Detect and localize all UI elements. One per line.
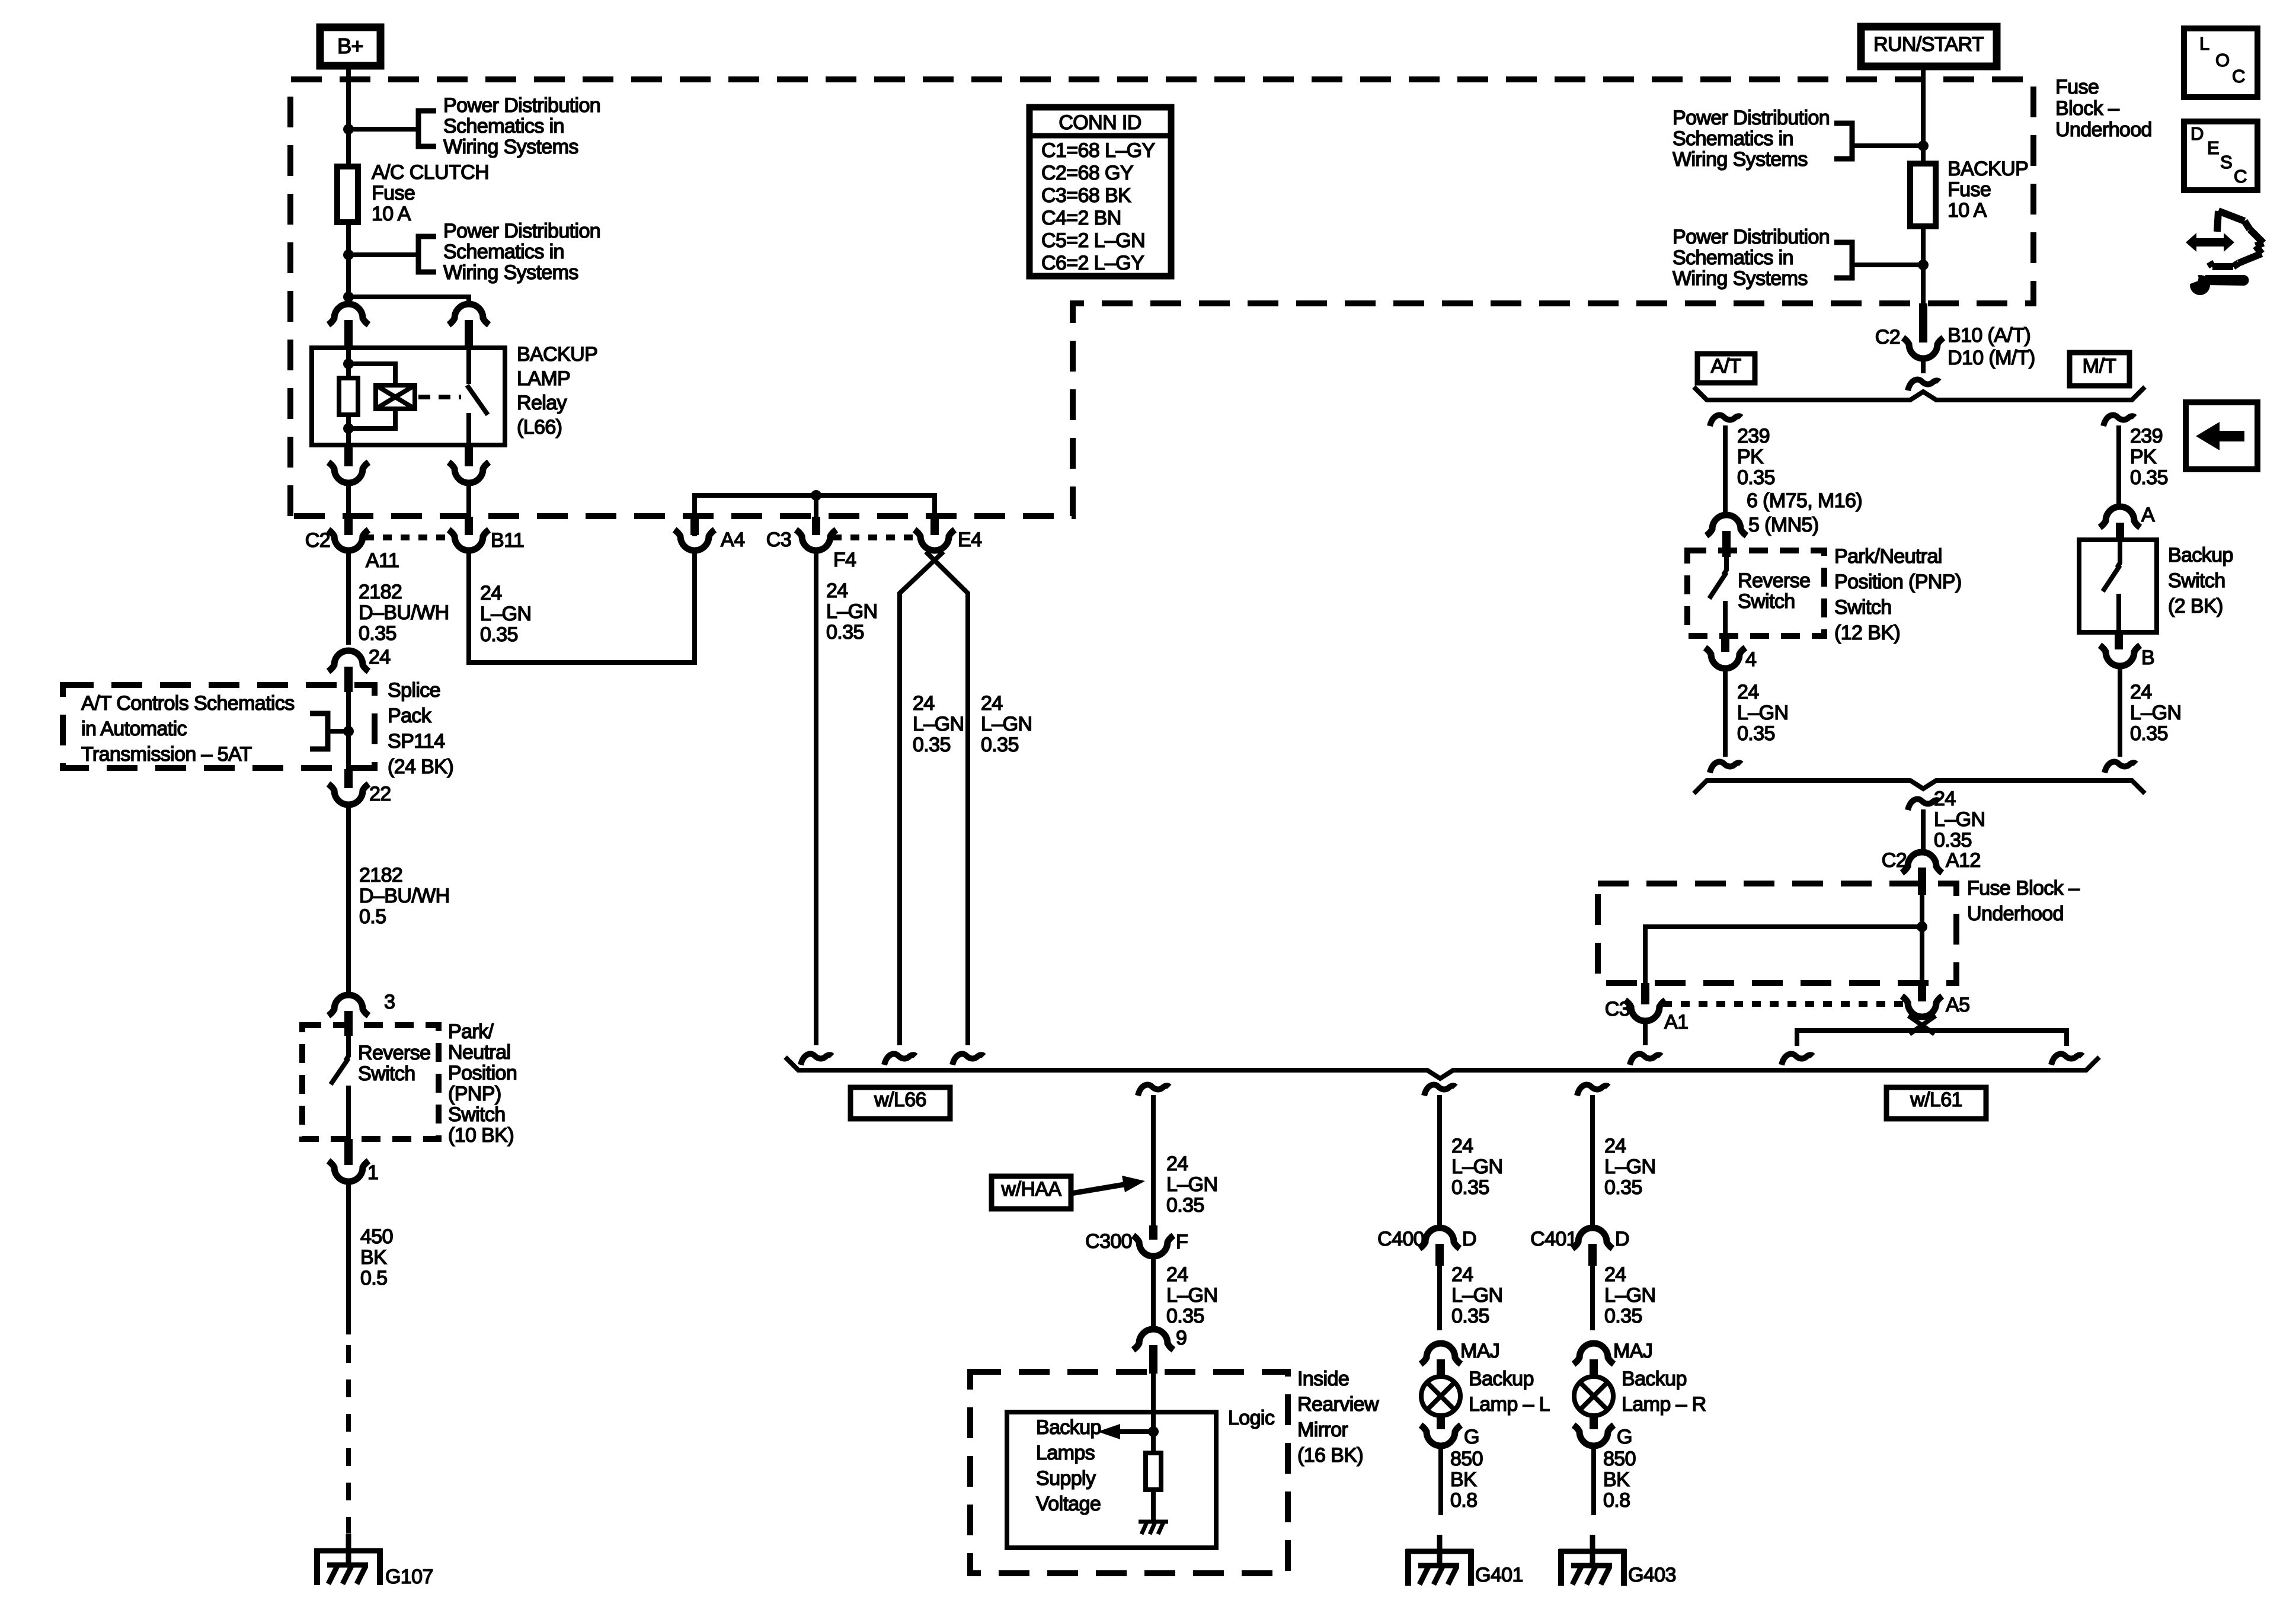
logic ground symbol — [1139, 1520, 1168, 1524]
junction node relay feed — [343, 292, 354, 302]
reverse switch wire top — [346, 1036, 348, 1061]
svg-text:RUN/START: RUN/START — [1873, 33, 1984, 56]
break symbol A5 right — [2051, 1054, 2083, 1065]
connector cup relay pin 30 — [449, 304, 489, 325]
lamp backup lamp R — [1574, 1377, 1613, 1416]
break symbol MT top — [2103, 415, 2135, 426]
pin stub B11 — [465, 517, 473, 535]
wire fuse2 down — [1921, 226, 1926, 303]
wire 450 BK dashed segment — [346, 1345, 351, 1534]
svg-text:MAJ: MAJ — [1460, 1340, 1499, 1362]
svg-text:5 (MN5): 5 (MN5) — [1748, 514, 1819, 536]
fuse block underhood lower dashed box — [1598, 884, 1956, 983]
svg-text:C401: C401 — [1530, 1228, 1577, 1250]
relay node coil bottom — [343, 423, 354, 434]
svg-text:C3: C3 — [1605, 998, 1630, 1020]
A/T tag box — [1697, 354, 1755, 383]
wire into logic — [1151, 1374, 1156, 1453]
break symbol E4 wire b — [952, 1054, 984, 1065]
wire node to relay switch pin — [348, 297, 469, 304]
MT switch contact — [2116, 594, 2121, 632]
relay switch blade — [467, 385, 488, 415]
pin stub MAJ R — [1590, 1359, 1598, 1378]
relay switch fixed bottom — [466, 413, 471, 445]
wire fuse block internal — [1645, 927, 1922, 983]
M/T tag box — [2070, 353, 2129, 386]
splice node SP114 — [343, 726, 354, 737]
connector face dotted lower — [1663, 1001, 1904, 1007]
connector cup A5 — [1902, 996, 1942, 1017]
junction node B+/callout1 — [343, 124, 354, 135]
junction node F4 pin — [811, 490, 821, 501]
connector cup A4 — [674, 530, 715, 550]
wire 2182 D-BU/WH 0.5 — [346, 805, 351, 995]
pin stub A5 — [1918, 983, 1926, 1001]
reverse switch blade — [331, 1058, 348, 1084]
break symbol C3A1 — [1630, 1054, 1661, 1065]
CONN ID header line — [1029, 133, 1171, 139]
connector cup C3 F4 — [796, 530, 836, 550]
AT switch contact — [1723, 601, 1728, 636]
connector cup C2 B10 — [1903, 338, 1943, 359]
svg-text:w/HAA: w/HAA — [1001, 1178, 1062, 1201]
wire 850 BK L — [1438, 1446, 1443, 1515]
junction node logic — [1148, 1426, 1159, 1437]
wire 450 BK 0.5 — [346, 1182, 351, 1334]
w/L66 tag box — [850, 1087, 950, 1119]
connector face dotted C2 — [365, 534, 452, 540]
wire node to relay coil pin — [346, 297, 351, 304]
relay resistor — [339, 378, 358, 415]
connector cup C400 D — [1419, 1228, 1460, 1249]
callout bracket RS 1 — [1834, 123, 1852, 159]
pin stub relay 86 — [344, 320, 353, 350]
connector cup relay 85 — [328, 462, 369, 483]
wire A12 inside fuse block — [1920, 895, 1924, 983]
break symbol C400 top — [1424, 1084, 1456, 1096]
logic arrow backup lamps supply voltage — [1119, 1429, 1153, 1434]
svg-text:A11: A11 — [366, 549, 399, 572]
wire 24 L-GN c400a — [1437, 1095, 1442, 1228]
wire 24 L-GN c400b — [1437, 1266, 1442, 1330]
wire F4 pin drop — [814, 495, 818, 517]
pin stub 4 — [1721, 636, 1729, 652]
break symbol F4 wire — [801, 1054, 832, 1065]
pin stub F4 — [812, 517, 820, 535]
svg-text:C300: C300 — [1085, 1230, 1132, 1253]
A/T controls dashed box — [63, 685, 375, 768]
pin stub 5 — [1722, 531, 1731, 557]
break symbol E4 wire a — [884, 1054, 916, 1065]
svg-text:F4: F4 — [833, 549, 856, 571]
wire E4 X right — [926, 552, 968, 1045]
svg-text:w/L66: w/L66 — [874, 1089, 926, 1111]
svg-text:Logic: Logic — [1228, 1407, 1275, 1429]
svg-text:D: D — [1615, 1228, 1629, 1250]
connector cup MAJ L — [1421, 1343, 1461, 1364]
relay coil X — [376, 385, 415, 409]
svg-text:G403: G403 — [1628, 1564, 1676, 1586]
svg-text:6 (M75, M16): 6 (M75, M16) — [1747, 489, 1862, 512]
pin stub relay 87 — [465, 445, 473, 466]
svg-text:9: 9 — [1176, 1327, 1187, 1349]
backup switch box — [2079, 540, 2157, 632]
relay coil pin wire — [346, 348, 351, 378]
wire to callout 1 — [348, 127, 417, 132]
wire B10 down — [1921, 359, 1926, 373]
connector cup G L — [1421, 1425, 1461, 1446]
svg-text:C2: C2 — [1882, 849, 1907, 872]
connector cup 24 — [328, 651, 369, 671]
connector cup E4 — [914, 530, 955, 550]
svg-text:22: 22 — [369, 783, 391, 805]
pin stub A — [2116, 523, 2124, 542]
fuse block underhood dashed outline — [290, 79, 2033, 516]
svg-text:MAJ: MAJ — [1613, 1340, 1652, 1362]
break symbol A5 left — [1782, 1054, 1813, 1065]
connector cup 5 MN5 — [1706, 515, 1747, 536]
wire 24 L-GN haa — [1151, 1095, 1156, 1225]
pin stub 3 — [344, 1011, 353, 1036]
pin stub 9 — [1149, 1345, 1157, 1374]
relay node coil top — [343, 359, 354, 369]
svg-text:4: 4 — [1745, 648, 1756, 671]
wire B+ down — [346, 69, 351, 167]
svg-text:F: F — [1176, 1231, 1188, 1253]
junction node fuse block lower — [1917, 921, 1927, 932]
wire 24 L-GN 0.35 B11 loop — [469, 550, 695, 662]
wire E4 X left — [900, 552, 944, 1045]
pin stub 24 — [344, 667, 353, 692]
MT switch blade — [2103, 565, 2120, 591]
break symbol B10 — [1908, 379, 1939, 391]
pin stub relay 85 — [344, 445, 353, 466]
pin stub D c400 — [1435, 1244, 1444, 1266]
wire splice segment — [346, 692, 351, 769]
wire A5 X right — [1908, 1016, 1934, 1034]
wire to RS callout 2 — [1853, 263, 1923, 267]
connector cup C300 F — [1133, 1235, 1173, 1256]
connector cup 4 — [1705, 648, 1745, 668]
pin stub G L — [1437, 1415, 1445, 1429]
CONN ID table box — [1029, 107, 1171, 276]
svg-text:D: D — [1462, 1228, 1476, 1250]
wire relay85 down — [346, 483, 351, 518]
wire to RS callout 1 — [1853, 143, 1923, 148]
RUN/START terminal box — [1861, 27, 1997, 66]
callout bracket 1 — [418, 111, 436, 146]
svg-text:L: L — [2199, 33, 2209, 54]
pin stub A4 — [690, 517, 699, 535]
break symbol MT bottom — [2105, 761, 2136, 773]
PNP reverse switch dashed box — [302, 1025, 439, 1139]
relay coil branch — [348, 364, 395, 385]
reverse switch contact — [346, 1086, 351, 1139]
break symbol AT top — [1710, 415, 1741, 426]
relay K box BACKUP LAMP Relay (L66) — [312, 348, 505, 445]
inside rearview mirror dashed box — [970, 1372, 1288, 1573]
wire 24 L-GN c401a — [1590, 1095, 1595, 1228]
relay actuator dashed link — [418, 395, 461, 399]
pin stub 1 — [344, 1139, 353, 1165]
svg-text:C400: C400 — [1377, 1228, 1424, 1250]
svg-text:A12: A12 — [1946, 849, 1981, 872]
svg-text:B: B — [2141, 646, 2154, 669]
svg-text:CONN ID: CONN ID — [1059, 111, 1141, 134]
svg-text:B+: B+ — [337, 34, 363, 58]
svg-text:G401: G401 — [1475, 1564, 1523, 1586]
wire resistor to gnd — [1151, 1490, 1156, 1521]
logic box — [1007, 1412, 1216, 1548]
svg-text:M/T: M/T — [2083, 355, 2116, 377]
callout bracket 2 — [418, 236, 436, 272]
svg-text:B10 (A/T)D10 (M/T): B10 (A/T)D10 (M/T) — [1948, 324, 2035, 369]
option brace top A/T M/T — [1694, 387, 2145, 400]
svg-text:A5: A5 — [1946, 994, 1969, 1016]
svg-text:A/T: A/T — [1710, 355, 1741, 377]
svg-text:(12 BK): (12 BK) — [1834, 622, 1900, 644]
direction icon wrench — [2190, 275, 2210, 295]
connector cup 1 — [328, 1161, 369, 1182]
wire C3A1 down — [1643, 1021, 1648, 1045]
wire bridge A4-F4-E4 — [695, 495, 935, 536]
AT switch wire top — [1723, 557, 1726, 575]
wire 850 BK R — [1591, 1446, 1596, 1515]
junction node callout2 — [343, 249, 354, 260]
connector cup G R — [1574, 1425, 1614, 1446]
pin stub 22 — [344, 769, 353, 788]
wire 24 L-GN MT — [2118, 666, 2122, 757]
relay coil branch low — [348, 409, 395, 428]
pin stub A12 — [1918, 868, 1926, 895]
svg-text:w/L61: w/L61 — [1910, 1089, 1962, 1111]
ground symbol G107 — [346, 1534, 351, 1566]
svg-text:D: D — [2191, 123, 2204, 144]
wire bracket to splice — [328, 729, 348, 734]
svg-text:A: A — [2141, 504, 2155, 526]
connector face dotted C3 mid — [833, 534, 918, 540]
break symbol C401 top — [1577, 1084, 1609, 1096]
wire 24 L-GN A12 — [1921, 809, 1926, 852]
w/HAA tag box — [992, 1176, 1071, 1209]
wire 24 L-GN 0.35 F4 — [814, 550, 818, 1045]
AT switch blade — [1709, 572, 1726, 598]
option brace bottom A/T M/T — [1694, 780, 2145, 793]
MT switch wire top — [2117, 542, 2120, 568]
fuse F2 BACKUP — [1910, 164, 1936, 226]
lamp backup lamp L — [1421, 1377, 1460, 1416]
wire fuse to node — [346, 222, 351, 297]
wire 239 PK 0.35 MT — [2116, 425, 2121, 507]
logic resistor — [1146, 1453, 1161, 1490]
break symbol AT bottom — [1710, 761, 1741, 773]
svg-text:A1: A1 — [1664, 1011, 1688, 1033]
direction icon double arrow — [2186, 233, 2234, 252]
back arrow icon box — [2186, 402, 2257, 469]
pin stub MAJ L — [1437, 1359, 1445, 1378]
svg-text:G107: G107 — [385, 1566, 433, 1588]
svg-text:C2: C2 — [305, 529, 330, 552]
reverse switch AT dashed box — [1687, 550, 1824, 636]
wire 24 L-GN c300 — [1151, 1256, 1156, 1329]
pin stub A11 — [344, 517, 353, 535]
relay switch fixed top — [466, 348, 471, 384]
connector cup 3 — [328, 995, 369, 1016]
fuse F1 A/C CLUTCH — [337, 167, 358, 222]
relay coil pin wire low — [346, 415, 351, 445]
ground symbol G403 — [1590, 1535, 1595, 1567]
svg-text:E4: E4 — [958, 529, 981, 551]
connector cup 22 — [328, 784, 369, 805]
junction node RS callout1 — [1918, 140, 1929, 151]
wire to callout 2 — [348, 252, 417, 257]
svg-text:C: C — [2232, 66, 2245, 87]
svg-text:O: O — [2215, 50, 2230, 71]
relay coil box — [376, 385, 415, 409]
B+ terminal box — [320, 27, 380, 66]
callout bracket RS 2 — [1834, 242, 1852, 278]
DESC icon box — [2184, 121, 2257, 190]
junction node RS callout2 — [1918, 260, 1929, 270]
svg-text:24: 24 — [369, 646, 391, 668]
pin stub E4 — [930, 517, 939, 535]
callout bracket splice — [310, 713, 328, 749]
connector cup C3 A1 — [1625, 1000, 1665, 1021]
wire 2182 D-BU/WH 0.35 — [346, 550, 351, 645]
wire relay87 down — [466, 483, 471, 518]
svg-text:S: S — [2220, 152, 2232, 172]
pin stub B10 — [1919, 303, 1927, 343]
wire A5 X left — [1910, 1016, 1936, 1034]
w/HAA arrow — [1071, 1184, 1127, 1193]
svg-text:C3: C3 — [766, 529, 791, 551]
svg-text:A4: A4 — [721, 529, 744, 551]
svg-text:B11: B11 — [491, 529, 524, 552]
connector cup A — [2100, 507, 2140, 527]
break symbol A12 top — [1908, 799, 1939, 810]
connector cup relay pin 86 — [328, 304, 369, 325]
svg-text:G: G — [1617, 1426, 1632, 1448]
pin stub F c300 — [1149, 1225, 1157, 1240]
pin stub relay 30 — [465, 320, 473, 350]
connector cup C2 A12 — [1902, 852, 1942, 873]
svg-text:3: 3 — [384, 991, 395, 1013]
wire 239 PK 0.35 AT — [1723, 425, 1728, 515]
connector cup C401 D — [1572, 1228, 1613, 1249]
svg-text:G: G — [1464, 1426, 1479, 1448]
back arrow icon glyph — [2196, 422, 2244, 450]
pin stub B conn — [2115, 632, 2123, 649]
svg-text:C2: C2 — [1875, 326, 1900, 348]
pin stub A1 — [1641, 983, 1649, 1004]
wire 24 L-GN c401b — [1590, 1266, 1595, 1330]
svg-text:E: E — [2207, 137, 2219, 158]
ground symbol G401 — [1437, 1535, 1443, 1567]
connector cup C2 A11 — [328, 530, 369, 550]
connector cup 9 — [1133, 1329, 1173, 1350]
connector cup relay 87 — [449, 462, 489, 483]
wire A5 split bar — [1797, 1030, 2067, 1046]
LOC icon box — [2184, 28, 2257, 97]
svg-text:1: 1 — [367, 1161, 378, 1184]
direction icon car outline — [2209, 211, 2263, 267]
break symbol C300 top — [1138, 1084, 1169, 1096]
wire 24 L-GN AT — [1723, 668, 1728, 757]
pin stub D c401 — [1588, 1244, 1597, 1266]
svg-text:C: C — [2234, 166, 2247, 187]
w/L61 tag box — [1886, 1087, 1986, 1119]
wire RUN/START down — [1921, 70, 1926, 164]
connector cup B — [2100, 645, 2140, 666]
connector cup MAJ R — [1574, 1343, 1614, 1364]
bus brace w/L66 w/L61 — [785, 1057, 2099, 1078]
pin stub G R — [1590, 1415, 1598, 1429]
connector cup B11 — [449, 530, 489, 550]
